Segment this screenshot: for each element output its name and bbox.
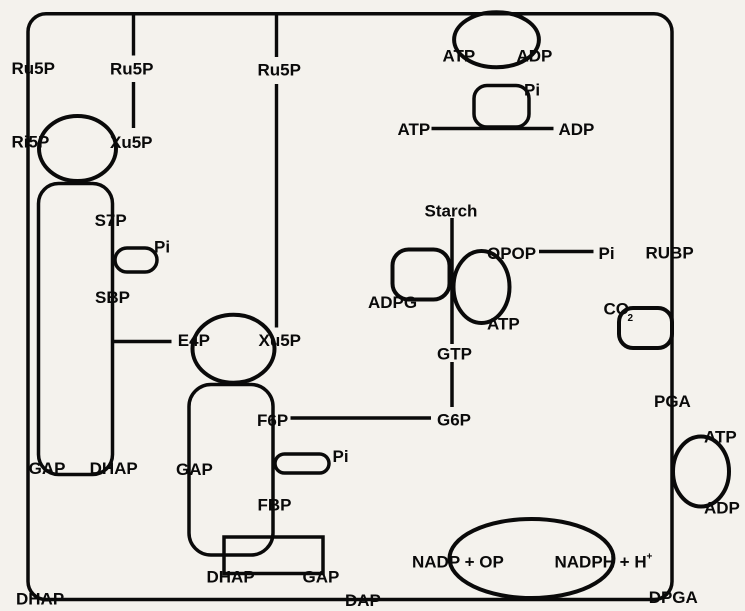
svg-text:ATP: ATP [487,315,520,334]
svg-text:OPOP: OPOP [487,244,536,263]
svg-text:E4P: E4P [178,331,210,350]
svg-text:ADP: ADP [704,499,740,518]
svg-text:GAP: GAP [176,460,213,479]
svg-text:Ru5P: Ru5P [12,59,55,78]
svg-text:PGA: PGA [654,392,691,411]
svg-text:Ru5P: Ru5P [258,61,301,80]
svg-text:Pi: Pi [154,238,170,257]
svg-text:NADPH + H: NADPH + H [555,553,647,572]
svg-text:GAP: GAP [29,459,66,478]
svg-text:ATP: ATP [443,47,476,66]
svg-text:GTP: GTP [437,345,472,364]
svg-text:SBP: SBP [95,288,130,307]
svg-text:RUBP: RUBP [646,244,694,263]
svg-text:ADP: ADP [517,47,553,66]
svg-text:S7P: S7P [95,211,127,230]
svg-text:ADPG: ADPG [368,293,417,312]
svg-text:DHAP: DHAP [16,590,64,609]
svg-text:Starch: Starch [425,202,478,221]
svg-text:Ru5P: Ru5P [110,60,153,79]
svg-text:NADP + OP: NADP + OP [412,553,504,572]
svg-text:Pi: Pi [524,81,540,100]
svg-text:DAP: DAP [345,591,381,610]
svg-text:DPGA: DPGA [649,588,698,607]
svg-text:+: + [647,552,653,563]
svg-text:DHAP: DHAP [90,459,138,478]
svg-text:ATP: ATP [398,120,431,139]
svg-text:GAP: GAP [303,568,340,587]
svg-text:FBP: FBP [258,496,292,515]
svg-text:DHAP: DHAP [207,568,255,587]
svg-text:CO: CO [604,300,630,319]
svg-text:F6P: F6P [257,411,288,430]
svg-text:Pi: Pi [333,447,349,466]
svg-text:2: 2 [628,313,634,324]
svg-text:ATP: ATP [704,428,737,447]
svg-text:Xu5P: Xu5P [110,133,153,152]
svg-text:Ri5P: Ri5P [12,133,50,152]
svg-text:G6P: G6P [437,411,471,430]
svg-text:Pi: Pi [599,244,615,263]
svg-text:Xu5P: Xu5P [259,331,302,350]
svg-text:ADP: ADP [559,120,595,139]
